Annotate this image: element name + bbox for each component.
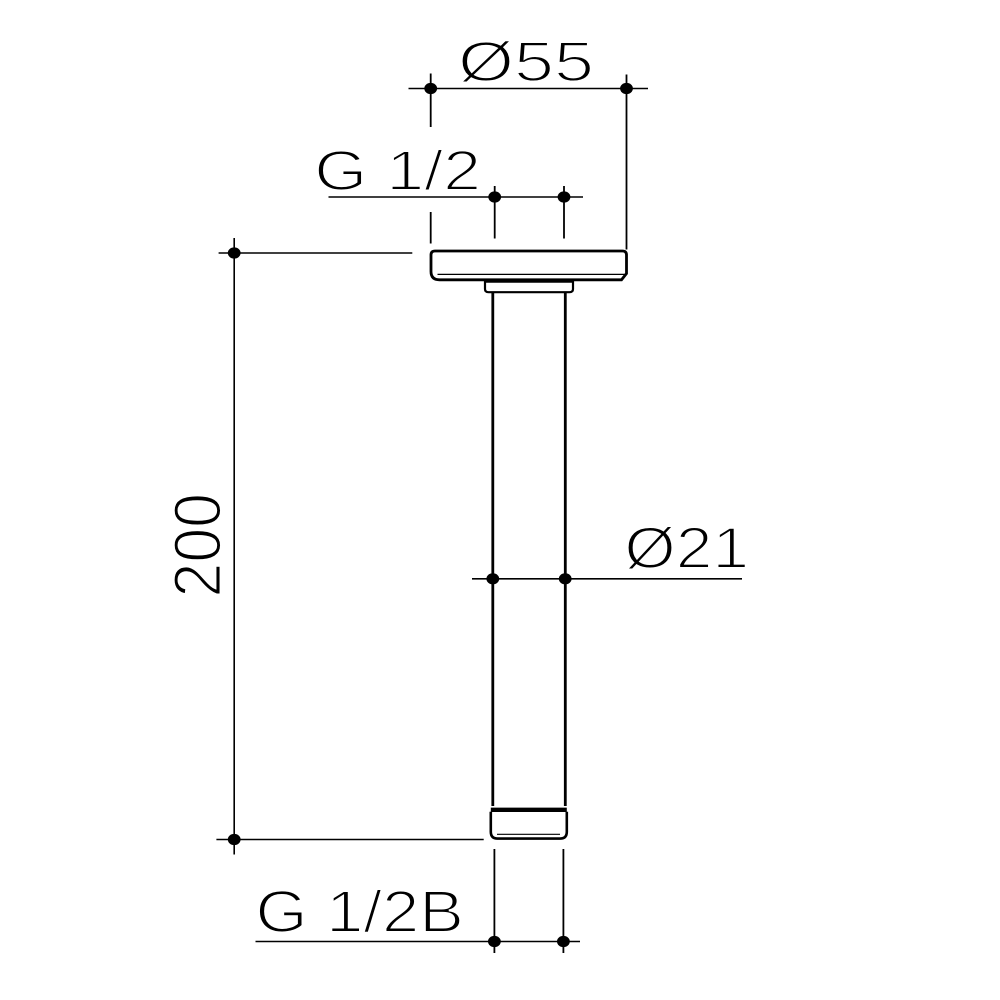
label D21	[624, 517, 749, 581]
svg-text:G 1/2: G 1/2	[314, 139, 481, 202]
tick through G12 left dot	[494, 186, 496, 239]
dim dot D21 right	[559, 573, 572, 584]
dim dot G12 right	[558, 191, 571, 202]
extension line D55 right down to flange	[626, 75, 628, 250]
dim line G 1/2	[329, 196, 584, 198]
pipe right wall	[564, 292, 567, 806]
dim dot G12B left	[488, 936, 501, 947]
dim dot D21 left	[486, 573, 499, 584]
end nut inner line	[497, 833, 560, 835]
label G 1/2B	[256, 880, 464, 945]
flange bottom edge line	[438, 273, 626, 275]
svg-text:200: 200	[160, 493, 235, 598]
tick through G12 right dot	[563, 186, 565, 239]
extension line G12B right	[562, 849, 564, 953]
label G 1/2	[314, 139, 481, 202]
extension line 200 top	[219, 252, 413, 254]
dim dot D55 right	[620, 83, 633, 94]
dim line D21	[472, 578, 742, 580]
dim dot 200 top	[228, 247, 241, 258]
dim dot G12B right	[557, 936, 570, 947]
collar	[485, 282, 573, 293]
thread relief band	[491, 808, 567, 812]
pipe left wall	[491, 292, 494, 806]
dim dot G12 left	[488, 191, 501, 202]
dim line 200 vertical	[233, 238, 235, 855]
dim dot 200 bottom	[228, 834, 241, 845]
svg-text:Ø55: Ø55	[458, 29, 594, 93]
end nut	[491, 812, 567, 839]
extension line G12B left	[493, 849, 495, 953]
label D55	[458, 29, 594, 93]
dim line G 1/2B	[256, 941, 581, 943]
tick through D55 left dot	[430, 74, 432, 128]
dim dot D55 left	[424, 83, 437, 94]
extension tick above flange left	[430, 212, 432, 244]
flange (ceiling plate)	[431, 251, 627, 280]
svg-text:Ø21: Ø21	[624, 517, 749, 581]
extension line 200 bottom	[216, 839, 483, 841]
svg-text:G 1/2B: G 1/2B	[256, 880, 464, 945]
dim line D55	[409, 88, 649, 90]
